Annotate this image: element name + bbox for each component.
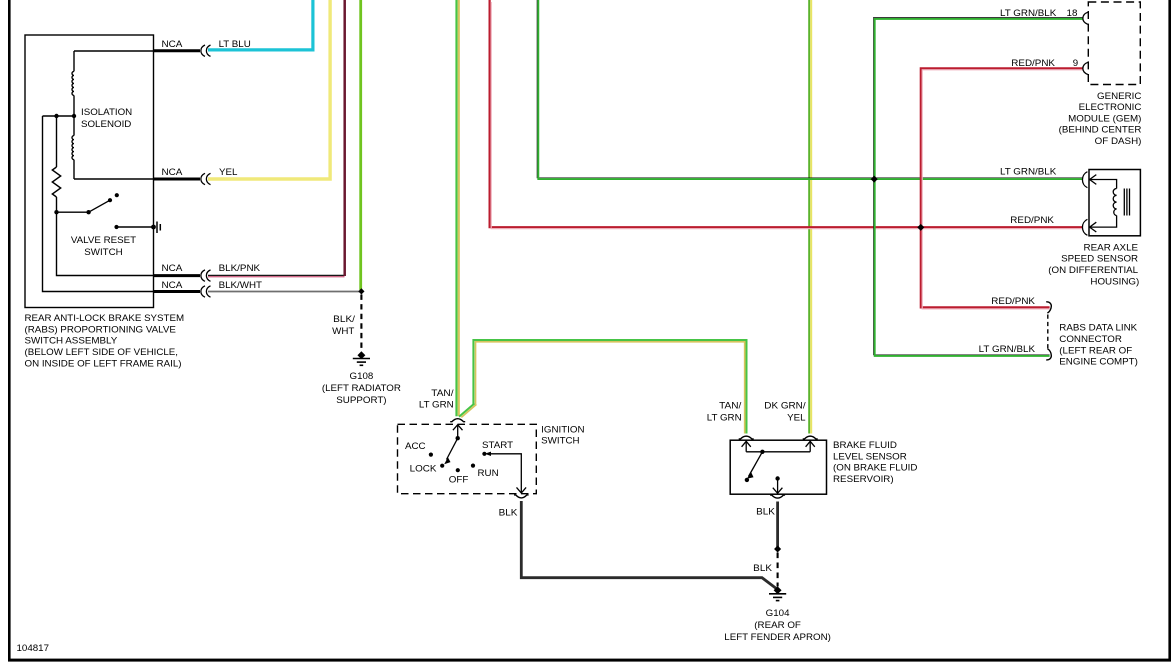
svg-text:ON INSIDE OF LEFT FRAME RAIL): ON INSIDE OF LEFT FRAME RAIL) xyxy=(25,359,182,369)
svg-text:(BELOW LEFT SIDE OF VEHICLE,: (BELOW LEFT SIDE OF VEHICLE, xyxy=(25,347,179,357)
svg-text:OF DASH): OF DASH) xyxy=(1095,136,1142,146)
svg-text:SWITCH ASSEMBLY: SWITCH ASSEMBLY xyxy=(25,336,118,346)
svg-text:BLK: BLK xyxy=(499,507,519,517)
svg-text:REAR ANTI-LOCK BRAKE SYSTEM: REAR ANTI-LOCK BRAKE SYSTEM xyxy=(25,313,185,323)
svg-text:(ON DIFFERENTIAL: (ON DIFFERENTIAL xyxy=(1048,265,1138,275)
svg-text:104817: 104817 xyxy=(17,643,50,653)
svg-text:RED/PNK: RED/PNK xyxy=(1010,215,1055,225)
svg-text:BLK/WHT: BLK/WHT xyxy=(219,280,263,290)
svg-text:GENERIC: GENERIC xyxy=(1097,91,1142,101)
svg-text:LT BLU: LT BLU xyxy=(219,39,251,49)
svg-text:MODULE (GEM): MODULE (GEM) xyxy=(1068,113,1141,123)
svg-text:LEFT FENDER APRON): LEFT FENDER APRON) xyxy=(724,632,831,642)
svg-text:18: 18 xyxy=(1067,8,1078,18)
svg-text:ELECTRONIC: ELECTRONIC xyxy=(1079,102,1142,112)
svg-text:G108: G108 xyxy=(350,371,374,381)
svg-text:BLK/PNK: BLK/PNK xyxy=(219,263,261,273)
svg-text:LEVEL SENSOR: LEVEL SENSOR xyxy=(833,451,907,461)
svg-text:NCA: NCA xyxy=(162,39,184,49)
svg-text:YEL: YEL xyxy=(219,167,237,177)
svg-text:REAR AXLE: REAR AXLE xyxy=(1084,242,1139,252)
svg-text:G104: G104 xyxy=(766,608,790,618)
svg-text:LT GRN: LT GRN xyxy=(707,413,742,423)
svg-text:RUN: RUN xyxy=(478,468,499,478)
svg-text:LT GRN: LT GRN xyxy=(419,400,454,410)
svg-text:TAN/: TAN/ xyxy=(431,388,454,398)
svg-text:(RABS) PROPORTIONING VALVE: (RABS) PROPORTIONING VALVE xyxy=(25,324,176,334)
svg-text:HOUSING): HOUSING) xyxy=(1090,277,1139,287)
svg-text:TAN/: TAN/ xyxy=(719,401,742,411)
svg-text:BLK/: BLK/ xyxy=(333,314,355,324)
svg-text:(BEHIND CENTER: (BEHIND CENTER xyxy=(1059,125,1142,135)
svg-text:WHT: WHT xyxy=(332,326,355,336)
svg-text:CONNECTOR: CONNECTOR xyxy=(1059,334,1122,344)
svg-text:LT GRN/BLK: LT GRN/BLK xyxy=(1000,8,1057,18)
svg-text:SWITCH: SWITCH xyxy=(84,247,122,257)
svg-text:RED/PNK: RED/PNK xyxy=(1011,58,1056,68)
svg-text:9: 9 xyxy=(1073,58,1078,68)
svg-text:START: START xyxy=(482,440,513,450)
svg-text:BLK: BLK xyxy=(756,506,776,516)
svg-text:SOLENOID: SOLENOID xyxy=(81,119,132,129)
svg-text:YEL: YEL xyxy=(787,413,805,423)
svg-text:IGNITION: IGNITION xyxy=(541,425,584,435)
svg-text:SPEED SENSOR: SPEED SENSOR xyxy=(1061,254,1138,264)
svg-text:RABS DATA LINK: RABS DATA LINK xyxy=(1059,323,1138,333)
svg-text:(REAR OF: (REAR OF xyxy=(754,620,801,630)
svg-text:RED/PNK: RED/PNK xyxy=(991,296,1036,306)
svg-text:NCA: NCA xyxy=(162,263,184,273)
svg-text:ENGINE COMPT): ENGINE COMPT) xyxy=(1059,357,1138,367)
svg-text:(LEFT RADIATOR: (LEFT RADIATOR xyxy=(322,383,401,393)
svg-text:(ON BRAKE FLUID: (ON BRAKE FLUID xyxy=(833,463,918,473)
svg-text:ISOLATION: ISOLATION xyxy=(81,107,132,117)
svg-text:BRAKE FLUID: BRAKE FLUID xyxy=(833,440,897,450)
svg-text:OFF: OFF xyxy=(449,475,469,485)
svg-text:(LEFT REAR OF: (LEFT REAR OF xyxy=(1059,345,1132,355)
svg-text:NCA: NCA xyxy=(162,280,184,290)
svg-text:LT GRN/BLK: LT GRN/BLK xyxy=(1000,166,1057,176)
svg-text:LOCK: LOCK xyxy=(410,463,438,473)
svg-text:SUPPORT): SUPPORT) xyxy=(336,395,386,405)
svg-text:RESERVOIR): RESERVOIR) xyxy=(833,474,894,484)
svg-text:DK GRN/: DK GRN/ xyxy=(764,401,806,411)
svg-text:NCA: NCA xyxy=(162,167,184,177)
svg-text:BLK: BLK xyxy=(753,563,773,573)
svg-text:LT GRN/BLK: LT GRN/BLK xyxy=(979,344,1036,354)
svg-text:ACC: ACC xyxy=(405,441,426,451)
svg-text:SWITCH: SWITCH xyxy=(541,436,579,446)
svg-text:VALVE RESET: VALVE RESET xyxy=(71,235,137,245)
